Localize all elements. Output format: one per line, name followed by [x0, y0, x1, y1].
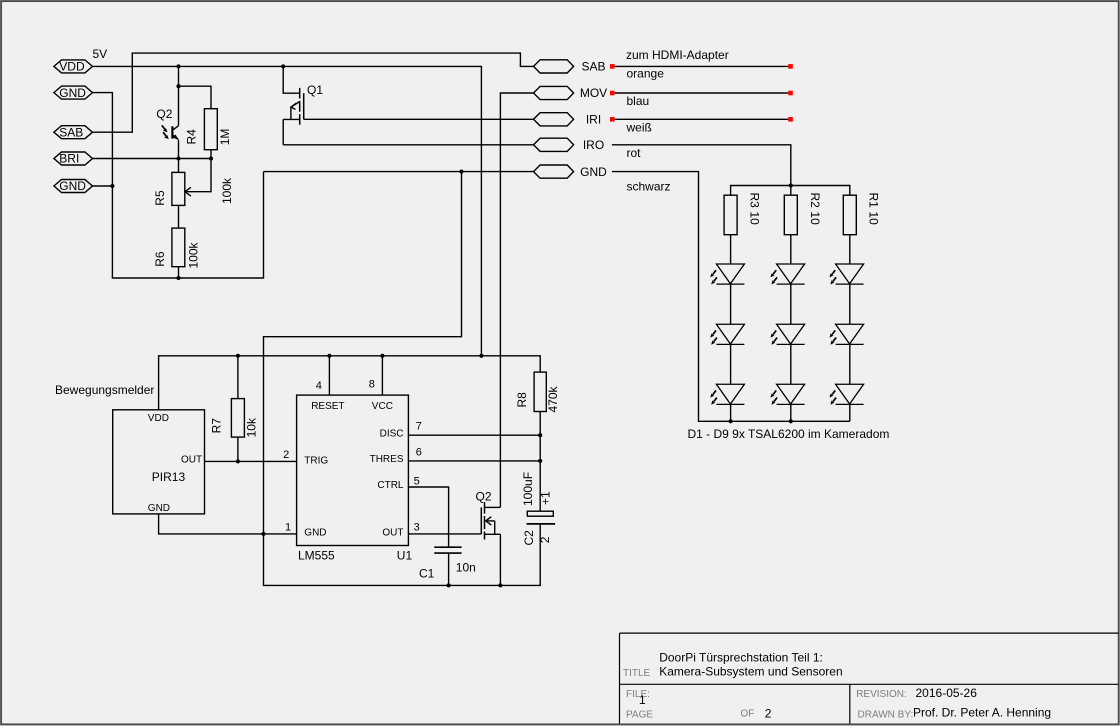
- wire IRI net (Q1 drain): [304, 118, 534, 120]
- svg-text:weiß: weiß: [626, 121, 652, 135]
- junction cathode rail col3: [729, 419, 733, 423]
- resistor R8: [515, 372, 560, 461]
- op-amp U1 LM555 box: [297, 395, 413, 562]
- svg-text:PIR13: PIR13: [152, 470, 186, 484]
- net end marker IRI left: [610, 117, 615, 122]
- svg-text:PAGE: PAGE: [626, 709, 653, 720]
- net end marker SAB right: [788, 64, 793, 69]
- pin 6 THRES wire: [408, 446, 540, 461]
- svg-text:100uF: 100uF: [521, 472, 535, 506]
- wire LED anode rail: [731, 186, 850, 196]
- svg-text:R3: R3: [748, 193, 762, 209]
- svg-text:Q1: Q1: [307, 83, 323, 97]
- capacitor C2 (electrolytic): [521, 472, 555, 546]
- resistor R5 (trimmer): [153, 159, 234, 206]
- input flag GND (second): [54, 179, 93, 193]
- svg-text:1: 1: [285, 522, 291, 534]
- svg-text:7: 7: [416, 421, 422, 433]
- resistor R7: [210, 356, 259, 462]
- svg-text:BRI: BRI: [59, 152, 79, 166]
- resistor R1: [843, 193, 880, 235]
- svg-text:OF: OF: [741, 709, 755, 720]
- svg-text:OUT: OUT: [181, 454, 202, 465]
- svg-text:6: 6: [416, 446, 422, 458]
- svg-text:+1: +1: [539, 491, 553, 505]
- wire IRO net (Q1 source): [283, 144, 533, 146]
- pin 5 CTRL wire: [408, 476, 448, 548]
- svg-text:10: 10: [808, 211, 822, 225]
- title block: [620, 633, 1119, 723]
- wire PIR OUT to TRIG: [205, 460, 297, 462]
- LED D7: [710, 264, 744, 285]
- svg-text:C1: C1: [419, 567, 435, 581]
- wire SAB net to output: [93, 53, 534, 132]
- svg-text:IRO: IRO: [583, 138, 604, 152]
- LED D5: [771, 324, 805, 345]
- svg-text:R4: R4: [185, 129, 199, 145]
- pin 3 OUT wire: [408, 522, 481, 534]
- junction cathode rail col2: [789, 419, 793, 423]
- wire MOV net: [500, 93, 533, 507]
- LED D6: [771, 384, 805, 405]
- junction IRO rail: [789, 183, 793, 187]
- net end marker SAB left: [610, 64, 615, 69]
- svg-text:10k: 10k: [245, 417, 259, 437]
- wire R4/Q2 feed: [179, 66, 212, 108]
- svg-text:2016-05-26: 2016-05-26: [916, 686, 978, 700]
- svg-text:CTRL: CTRL: [377, 480, 404, 491]
- junction pin8 top: [380, 354, 384, 358]
- svg-text:rot: rot: [627, 146, 642, 160]
- junction R6/GND rail: [176, 276, 180, 280]
- svg-text:R7: R7: [210, 418, 224, 434]
- svg-text:LM555: LM555: [298, 549, 335, 563]
- svg-text:1M: 1M: [218, 129, 232, 146]
- wire column 2 leads: [790, 235, 792, 422]
- junction pin4 top: [327, 354, 331, 358]
- wire GND loop to 555: [264, 172, 541, 586]
- LED D2: [830, 324, 864, 345]
- input flag SAB: [54, 125, 93, 139]
- output flag MOV: [534, 86, 608, 100]
- LED D4: [771, 264, 805, 285]
- LED D9: [710, 384, 744, 405]
- svg-text:Kamera-Subsystem und Sensoren: Kamera-Subsystem und Sensoren: [659, 664, 842, 678]
- wire MOV cable stub: [615, 92, 789, 94]
- svg-text:DoorPi Türsprechstation Teil 1: DoorPi Türsprechstation Teil 1:: [659, 651, 823, 665]
- svg-text:10n: 10n: [456, 561, 476, 575]
- svg-text:GND: GND: [580, 165, 607, 179]
- junction Q2 source/GND rail: [498, 583, 502, 587]
- svg-text:RESET: RESET: [311, 401, 344, 412]
- transistor Q2 (output MOSFET): [476, 490, 501, 586]
- svg-text:1: 1: [639, 693, 646, 707]
- svg-text:C2: C2: [522, 530, 536, 546]
- junction BRI/Q2 emitter/R5: [176, 156, 180, 160]
- wire column 3 leads: [730, 235, 732, 422]
- svg-text:DRAWN BY:: DRAWN BY:: [858, 709, 914, 720]
- svg-text:R5: R5: [153, 190, 167, 206]
- input flag GND (first): [54, 86, 93, 100]
- resistor R2: [784, 193, 822, 235]
- svg-text:IRI: IRI: [586, 113, 601, 127]
- svg-text:D1 - D9 9x TSAL6200 im Kamerad: D1 - D9 9x TSAL6200 im Kameradom: [688, 427, 890, 441]
- junction R7 bottom: [236, 459, 240, 463]
- svg-text:R2: R2: [808, 193, 822, 209]
- svg-text:blau: blau: [627, 94, 650, 108]
- input flag VDD: [54, 60, 93, 74]
- svg-text:R6: R6: [153, 251, 167, 267]
- output flag IRO: [534, 138, 605, 152]
- svg-text:TRIG: TRIG: [304, 455, 328, 466]
- svg-text:GND: GND: [59, 86, 86, 100]
- PIR sensor PIR13: [113, 410, 205, 514]
- svg-text:3: 3: [414, 522, 420, 534]
- svg-text:MOV: MOV: [580, 86, 607, 100]
- wire THRES to C2: [539, 461, 541, 511]
- LED D8: [710, 324, 744, 345]
- transistor Q2 (phototransistor): [156, 86, 179, 158]
- svg-text:2: 2: [538, 536, 552, 543]
- svg-text:10: 10: [748, 211, 762, 225]
- junction GND flags: [110, 184, 114, 188]
- LED D3: [830, 384, 864, 405]
- svg-text:Bewegungsmelder: Bewegungsmelder: [55, 383, 154, 397]
- wire PIR GND to 555 GND: [159, 514, 297, 534]
- LED D1: [830, 264, 864, 285]
- svg-text:schwarz: schwarz: [627, 180, 671, 194]
- wire GND to output flag: [264, 171, 534, 173]
- svg-text:100k: 100k: [220, 177, 234, 204]
- input flag BRI: [54, 152, 93, 166]
- svg-text:100k: 100k: [187, 241, 201, 268]
- wire GND to LED array: [612, 172, 850, 422]
- svg-text:2: 2: [283, 449, 289, 461]
- junction R4 branch: [176, 84, 180, 88]
- svg-text:U1: U1: [397, 549, 413, 563]
- net end marker MOV left: [610, 91, 615, 96]
- svg-text:R1: R1: [867, 193, 881, 209]
- svg-text:zum HDMI-Adapter: zum HDMI-Adapter: [626, 48, 729, 62]
- junction R7 top: [236, 354, 240, 358]
- svg-text:orange: orange: [627, 66, 665, 80]
- wire BRI net: [93, 158, 212, 160]
- svg-text:VDD: VDD: [148, 413, 169, 424]
- svg-text:GND: GND: [304, 527, 326, 538]
- resistor R4: [185, 109, 233, 159]
- wire GND input flags: [93, 93, 264, 278]
- wire column 1 leads: [849, 235, 851, 422]
- svg-text:REVISION:: REVISION:: [856, 689, 907, 700]
- svg-text:DISC: DISC: [380, 429, 404, 440]
- svg-text:Q2: Q2: [476, 490, 492, 504]
- svg-text:SAB: SAB: [59, 125, 83, 139]
- svg-text:SAB: SAB: [581, 60, 605, 74]
- wire SAB cable stub: [615, 65, 789, 67]
- junction VDD/R4 branch: [176, 64, 180, 68]
- output flag SAB: [534, 60, 606, 74]
- junction THRES/R8/C2: [538, 459, 542, 463]
- capacitor C1: [419, 547, 476, 585]
- svg-text:GND: GND: [148, 503, 170, 514]
- wire VDD rail to 555: [159, 356, 541, 410]
- svg-text:8: 8: [369, 379, 375, 391]
- svg-text:5: 5: [414, 476, 420, 488]
- pin 7 DISC wire: [408, 421, 540, 436]
- junction 555 GND loop: [261, 532, 265, 536]
- output flag IRI: [534, 113, 602, 127]
- wire IRI cable stub: [615, 118, 789, 120]
- svg-text:Prof. Dr. Peter A. Henning: Prof. Dr. Peter A. Henning: [913, 705, 1051, 719]
- svg-text:R8: R8: [515, 392, 529, 408]
- junction DISC/R8: [538, 433, 542, 437]
- svg-text:TITLE: TITLE: [623, 668, 651, 679]
- net end marker IRI right: [788, 117, 793, 122]
- wire IRO to LED array: [612, 145, 791, 186]
- pin 4 RESET: [316, 356, 330, 395]
- svg-text:2: 2: [765, 706, 772, 720]
- svg-text:GND: GND: [59, 179, 86, 193]
- svg-text:VCC: VCC: [372, 401, 393, 412]
- svg-text:Q2: Q2: [156, 107, 172, 121]
- junction VDD feed: [479, 354, 483, 358]
- svg-text:5V: 5V: [93, 47, 108, 61]
- svg-text:4: 4: [316, 380, 322, 392]
- svg-text:470k: 470k: [546, 385, 560, 412]
- junction BRI/R4/wiper: [209, 156, 213, 160]
- svg-text:OUT: OUT: [382, 527, 403, 538]
- output flag GND: [534, 165, 608, 179]
- svg-text:THRES: THRES: [370, 454, 404, 465]
- junction C1 bottom: [447, 583, 451, 587]
- junction GND loop: [459, 170, 463, 174]
- svg-text:10: 10: [867, 211, 881, 225]
- svg-text:FILE:: FILE:: [626, 689, 650, 700]
- wire R2 top lead: [790, 186, 792, 196]
- pin 8 VCC: [369, 356, 383, 395]
- resistor R6: [153, 205, 201, 278]
- wire VDD rail: [93, 66, 482, 355]
- net end marker MOV right: [788, 91, 793, 96]
- svg-text:VDD: VDD: [59, 60, 85, 74]
- transistor Q1 (P-MOSFET): [281, 64, 323, 144]
- wire GND second flag: [93, 185, 113, 187]
- resistor R3: [724, 193, 761, 235]
